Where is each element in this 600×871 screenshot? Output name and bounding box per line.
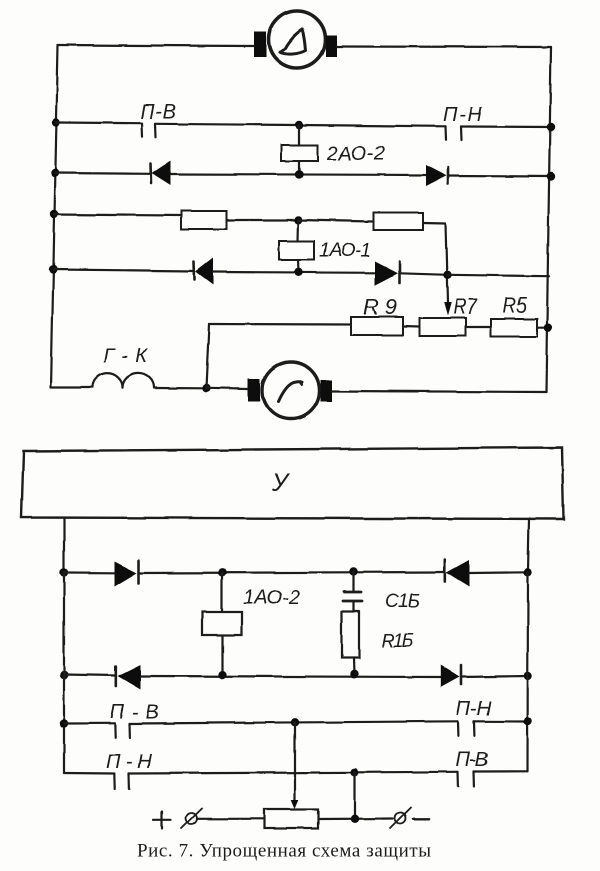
node L1 mid <box>295 121 303 129</box>
resistor R7 <box>420 294 478 336</box>
wire right bus lower <box>526 572 529 771</box>
wire lineD seg a <box>64 772 115 775</box>
wire line4 seg d <box>448 275 550 276</box>
diode VD2 <box>426 165 449 187</box>
wire node to generator <box>206 387 249 390</box>
svg-text:П-Н: П-Н <box>443 104 483 126</box>
node L4 mid <box>294 268 302 276</box>
node L4 tap <box>443 271 451 279</box>
wire pot to node <box>318 817 393 820</box>
node L1 right <box>547 123 555 131</box>
wire line3 to tap <box>423 221 446 224</box>
svg-text:2АО-2: 2АО-2 <box>326 143 385 165</box>
wire line4 seg c <box>400 273 448 275</box>
node bottom <box>350 815 358 823</box>
wire R7-R5 <box>466 326 491 328</box>
node C left <box>60 719 68 727</box>
diode VD3 <box>194 258 213 285</box>
diode VD6 <box>445 560 469 588</box>
wire line4 seg b <box>213 271 375 274</box>
wire lineC seg c <box>474 720 528 722</box>
potentiometer <box>264 810 318 829</box>
wire R9 row left horizontal <box>209 323 351 326</box>
svg-text:R7: R7 <box>453 294 478 319</box>
wire right bus of motor loop <box>546 47 551 392</box>
relay coil 1АО-2 <box>202 572 300 674</box>
resistor Ra <box>181 211 227 229</box>
wire rc drop to bottom <box>353 772 355 819</box>
wire top-right <box>337 45 551 48</box>
wire lineB seg c <box>462 676 529 677</box>
contact П-В top <box>140 102 176 138</box>
wire lineA seg c <box>469 571 528 574</box>
wire terminal to pot <box>197 818 264 820</box>
wire R9-R7 <box>403 325 420 328</box>
wire R9 row left vertical <box>206 324 209 388</box>
wire generator to bottom-right <box>332 391 546 392</box>
contact П-В lower-right2 <box>456 749 488 787</box>
wire line1 seg a <box>56 121 142 124</box>
node L2 right <box>547 172 555 180</box>
diode VD8 <box>441 665 462 688</box>
wire left bus lower <box>63 573 65 774</box>
node L1 left <box>52 118 60 126</box>
diode VD4 <box>375 262 400 286</box>
svg-text:П-Н: П-Н <box>106 751 153 773</box>
generator G Г <box>248 362 332 419</box>
node A right <box>524 568 532 576</box>
terminal left <box>182 809 203 829</box>
resistor R9 <box>351 295 403 336</box>
amplifier U У <box>22 448 564 520</box>
inductor Г-К <box>92 346 154 389</box>
wire coil to node G1 <box>154 387 206 389</box>
contact П-В lower-left <box>110 702 159 738</box>
wire top-left <box>58 45 254 46</box>
terminal right <box>391 808 412 829</box>
arrow onto R7 <box>444 302 452 316</box>
diode VD7 <box>116 665 141 690</box>
node at generator branch <box>202 384 210 392</box>
node L3 left <box>50 210 58 218</box>
wire right drop from У <box>528 519 529 573</box>
wire lineC seg b <box>129 721 458 723</box>
svg-text:П-Н: П-Н <box>456 698 492 720</box>
node B left <box>60 670 68 678</box>
relay coil 2АО-2 <box>281 125 385 175</box>
wire lineD seg c <box>474 770 528 772</box>
svg-text:Г-К: Г-К <box>103 346 148 368</box>
wire R5 to right bus <box>537 327 549 329</box>
wire lineB seg a <box>64 675 116 676</box>
svg-text:Рис. 7. Упрощенная схема защит: Рис. 7. Упрощенная схема защиты <box>137 841 431 862</box>
plus terminal label <box>154 812 171 829</box>
node L3 mid <box>294 216 302 224</box>
wire lineA seg b <box>139 572 445 573</box>
svg-text:П-В: П-В <box>456 749 488 771</box>
node D mid <box>350 768 358 776</box>
relay coil 1АО-1 <box>279 220 371 272</box>
node R5 right <box>544 324 552 332</box>
node A rc <box>350 567 358 575</box>
svg-text:R5: R5 <box>503 293 528 318</box>
node C right <box>524 717 532 725</box>
diode VD1 <box>151 161 171 186</box>
wire left drop from У <box>63 519 65 573</box>
wire line3 seg b <box>227 219 299 221</box>
svg-text:1АО-2: 1АО-2 <box>243 587 300 609</box>
wire bottom-left to coil <box>51 386 92 388</box>
wire line3 seg c <box>299 220 374 222</box>
resistor R1Б <box>342 601 415 675</box>
wire line2 seg a <box>55 172 150 175</box>
svg-text:R1Б: R1Б <box>381 631 414 652</box>
node L2 mid <box>295 170 303 178</box>
wire lineC seg a <box>64 722 115 724</box>
node C mid <box>291 718 299 726</box>
node B coil <box>218 671 226 679</box>
svg-text:П-В: П-В <box>110 702 159 724</box>
motor M1 Д <box>254 11 338 68</box>
node L4 left <box>49 265 57 273</box>
svg-text:П-В: П-В <box>140 102 176 124</box>
node L2 left <box>51 169 59 177</box>
node A coil <box>218 568 226 576</box>
wire line3 seg a <box>54 215 181 216</box>
contact П-Н top <box>443 104 483 141</box>
resistor R5 <box>491 293 537 337</box>
contact П-Н lower-left2 <box>106 751 153 789</box>
wire pot arrow drop <box>294 722 296 800</box>
wire line1 seg c <box>461 125 551 128</box>
diode VD5 <box>115 561 140 587</box>
wire line4 seg a <box>53 270 194 272</box>
capacitor C1Б <box>343 572 420 613</box>
wire left bus of motor loop <box>51 45 58 388</box>
resistor Rb <box>374 213 424 231</box>
wire line2 seg b <box>171 174 427 175</box>
node B right <box>524 672 532 680</box>
node B rc <box>350 670 358 678</box>
wire tap vertical <box>446 223 448 302</box>
svg-text:С1Б: С1Б <box>385 591 420 612</box>
wire lineA seg a <box>64 571 115 573</box>
wire line2 seg c <box>449 174 552 177</box>
node A left <box>60 568 68 576</box>
arrow onto potentiometer <box>291 800 299 809</box>
svg-text:1АО-1: 1АО-1 <box>319 241 371 262</box>
contact П-Н lower-right <box>456 698 492 736</box>
wire lineD seg b <box>129 772 458 774</box>
wire line1 seg b <box>155 124 446 127</box>
wire lineB seg b <box>141 676 441 677</box>
svg-text:У: У <box>271 469 291 497</box>
minus terminal label <box>414 818 430 820</box>
svg-text:R9: R9 <box>363 295 397 320</box>
